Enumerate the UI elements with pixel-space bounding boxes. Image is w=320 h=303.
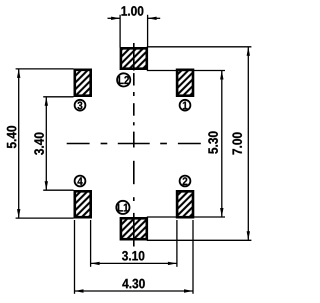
arrow bottom of 3.40: [45, 181, 48, 190]
arrow bottom of 5.30: [220, 208, 223, 217]
arrow top of 7.00: [247, 47, 250, 56]
dimension 3.40 extension+lines (inner left): [43, 97, 73, 190]
dim text 3.10: [122, 251, 144, 261]
pin label L2: [119, 76, 129, 84]
pin label 1: [183, 102, 188, 110]
pad L1 (bottom center): [121, 218, 147, 239]
dimension 4.30 extension+lines (outer bottom): [75, 220, 194, 294]
arrow bottom of 7.00: [247, 231, 250, 240]
arrow right of 4.30: [184, 289, 193, 292]
pin circle 4: [75, 176, 86, 187]
pad 4 (bottom left): [75, 191, 91, 217]
dimension 1.00 extension+lines (top): [108, 15, 161, 48]
pin circle 3: [75, 100, 86, 111]
arrow right of 3.10: [168, 262, 177, 265]
pin circle 1: [180, 100, 191, 111]
arrow bottom of 5.40: [17, 209, 20, 218]
dimension 7.00 extension+lines (outer right): [147, 47, 252, 241]
pin circle L2: [117, 73, 130, 86]
pad 3 (top left): [75, 70, 91, 96]
dim text 7.00: [232, 132, 242, 154]
pin label 2: [183, 177, 188, 185]
arrow right of 1.00: [148, 17, 157, 20]
arrow left of 4.30: [75, 289, 84, 292]
horizontal center line: [67, 143, 201, 145]
pin circle L1: [116, 201, 129, 214]
arrow left of 3.10: [91, 262, 100, 265]
arrow top of 5.40: [17, 69, 20, 78]
pin label 3: [77, 102, 82, 110]
pin circle 2: [180, 176, 191, 187]
arrow top of 5.30: [220, 71, 223, 80]
dimension 5.40 extension+lines (outer left): [16, 69, 74, 218]
vertical center line: [133, 43, 135, 247]
pad L2 (top center): [121, 48, 147, 68]
dim text 4.30: [122, 279, 144, 289]
dim text 5.40: [7, 126, 17, 148]
dim text 5.30: [208, 131, 218, 153]
dim text 1.00: [121, 6, 143, 16]
dimension 3.10 extension+lines (inner bottom): [91, 220, 177, 267]
pin label L1: [118, 204, 128, 212]
pin label 4: [77, 177, 82, 185]
pad 1 (top right): [177, 70, 193, 96]
dimension 5.30 extension+lines (inner right): [147, 71, 225, 218]
dim text 3.40: [34, 133, 44, 155]
arrow top of 3.40: [45, 97, 48, 106]
pad 2 (bottom right): [177, 191, 193, 217]
arrow left of 1.00: [111, 17, 120, 20]
